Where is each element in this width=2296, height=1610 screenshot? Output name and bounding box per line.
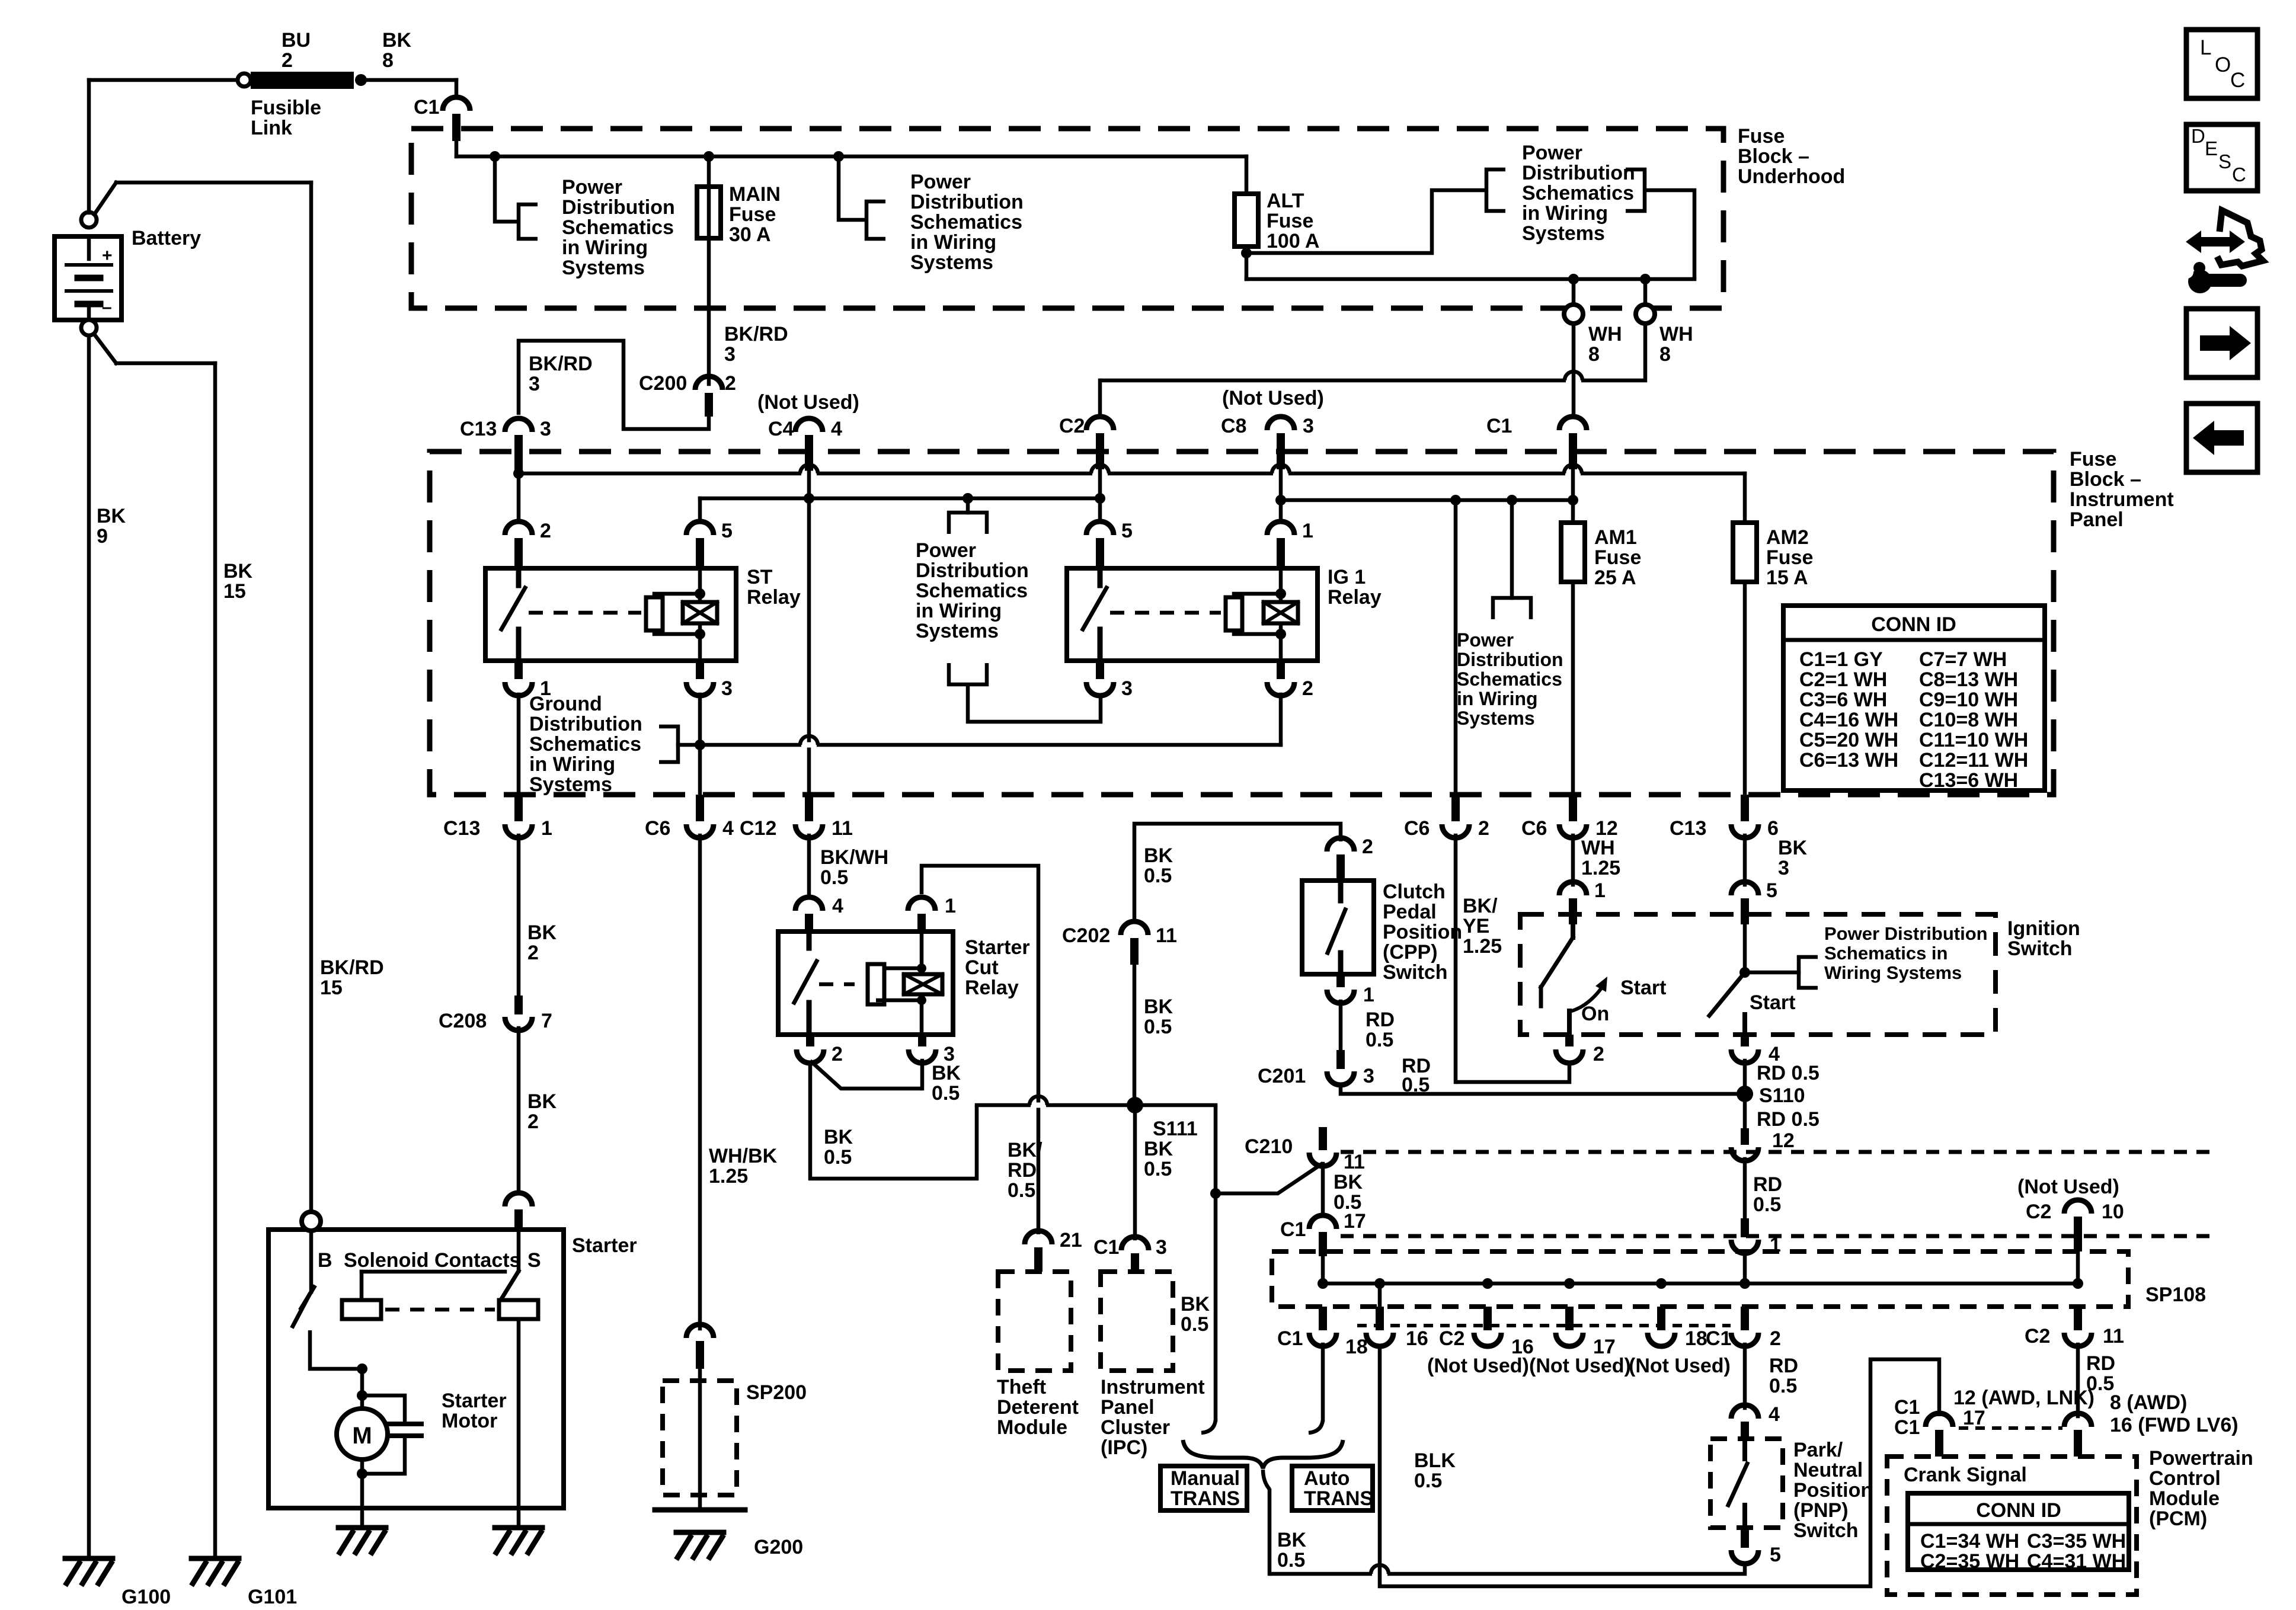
wire S111 horizontal [977,1103,1216,1108]
svg-text:Systems: Systems [910,251,993,274]
battery positive terminal [81,212,97,228]
svg-text:0.5: 0.5 [1008,1179,1035,1202]
wire rail3 [1281,498,1573,502]
PNP switch blade [1742,1439,1747,1459]
dashed line C1 [1341,1234,2217,1238]
svg-text:8: 8 [382,49,394,72]
Fuse Block - Underhood dashed box [411,129,1723,308]
svg-text:0.5: 0.5 [1414,1470,1442,1492]
CPP switch box [1302,881,1374,974]
wire PDS-right to bus2 right end [1645,190,1694,279]
svg-text:in Wiring: in Wiring [529,753,615,776]
svg-text:Distribution: Distribution [562,196,675,219]
instrument panel cluster dashed box [1101,1272,1173,1371]
svg-text:11: 11 [832,817,853,840]
svg-text:TRANS: TRANS [1171,1487,1240,1510]
svg-text:Switch: Switch [1383,961,1448,984]
svg-text:C: C [2230,69,2245,92]
svg-text:Fuse: Fuse [1766,546,1813,569]
connector starter cut pin 3 [909,1049,936,1063]
svg-text:Manual: Manual [1171,1467,1240,1490]
ground G101 [191,1556,239,1561]
svg-text:C2: C2 [2025,1325,2050,1347]
svg-text:Control: Control [2149,1467,2221,1490]
connector IG1 relay pin 5 [1086,521,1114,535]
svg-text:–: – [102,297,112,317]
connector IG1 relay pin 3 [1086,682,1114,696]
svg-text:Cluster: Cluster [1101,1416,1170,1439]
node rail2/C2 [1095,493,1105,504]
svg-text:BK/: BK/ [1008,1139,1043,1161]
svg-text:5: 5 [1770,1544,1781,1566]
wire bus2 [1246,277,1694,281]
svg-text:C3=6 WH: C3=6 WH [1799,689,1887,711]
svg-text:Systems: Systems [529,773,612,796]
node bus1/MAIN fuse [703,151,714,162]
svg-text:25 A: 25 A [1594,566,1636,589]
svg-text:2: 2 [1770,1327,1781,1350]
connector CPP pin 1 [1336,974,1345,987]
wire rail1 BK/RD3 feed [519,472,1745,476]
svg-text:BK: BK [1144,996,1173,1018]
wire rail2 to PDS-mid-IP bracket [966,498,970,513]
svg-text:Starter: Starter [965,936,1030,959]
svg-text:C1: C1 [1277,1327,1303,1350]
svg-text:2: 2 [1302,677,1313,700]
svg-text:16 (FWD LV6): 16 (FWD LV6) [2110,1414,2239,1436]
starter motor [337,1409,388,1459]
svg-text:Schematics: Schematics [562,216,674,239]
terminal starter B [302,1212,321,1231]
svg-text:C7=7 WH: C7=7 WH [1919,648,2007,671]
svg-text:BK/RD: BK/RD [320,956,384,979]
svg-text:C6: C6 [1521,817,1547,840]
svg-text:Power: Power [1522,142,1582,164]
svg-text:BK: BK [1144,844,1173,867]
svg-text:Underhood: Underhood [1738,165,1845,188]
ignition start arrow [1568,985,1604,1012]
wire to PDS-mid bracket [839,156,866,220]
svg-text:Relay: Relay [1328,586,1382,609]
off-page bracket PDS-left [519,204,538,239]
svg-text:Schematics in: Schematics in [1824,943,1948,964]
svg-text:Module: Module [2149,1487,2220,1510]
svg-text:15: 15 [223,580,246,603]
svg-text:Powertrain: Powertrain [2149,1447,2253,1470]
node rail2/PDS-mid-IP [962,493,973,504]
svg-text:17: 17 [1963,1407,1985,1429]
svg-text:Power: Power [562,176,622,199]
svg-text:C1: C1 [1894,1396,1920,1419]
svg-text:Position: Position [1383,921,1462,943]
wire C6-2 feed from rail3 [1454,500,1458,795]
svg-text:0.5: 0.5 [1181,1313,1208,1336]
wire AM2 to C13-6 [1743,582,1747,795]
svg-text:S111: S111 [1153,1118,1198,1140]
wire ST pin1 down to C13-1 [517,694,521,795]
battery [55,236,121,320]
small brace auto trans [1263,1470,1269,1489]
svg-text:RD: RD [1008,1159,1037,1182]
ST relay link dashes [529,611,641,615]
svg-text:C4=31 WH: C4=31 WH [2027,1550,2126,1573]
svg-text:3: 3 [540,418,551,440]
svg-text:Deterent: Deterent [997,1396,1079,1419]
node bus2/WH8-right [1640,274,1651,284]
svg-text:BK: BK [932,1062,961,1084]
connector ST relay pin 1 [505,682,532,696]
node bus2/WH8-left [1568,274,1579,284]
off-page bracket PDS-right-right [1626,169,1645,211]
wire CPP feed [1134,824,1341,919]
node rail3/PDS-right-IP [1507,495,1517,505]
svg-text:11: 11 [2103,1325,2124,1347]
wire rail2 coil feed [700,497,1100,501]
svg-text:C4: C4 [768,418,794,440]
resistor starter cut coil [868,964,884,1004]
svg-text:16: 16 [1406,1327,1428,1350]
svg-text:3: 3 [1778,857,1789,879]
svg-text:Relay: Relay [747,586,801,609]
svg-text:C12: C12 [740,817,776,840]
svg-text:Power: Power [1457,629,1514,651]
svg-text:Crank Signal: Crank Signal [1904,1464,2027,1486]
wire rail4 corner up to IG1 pin2 [1279,694,1283,745]
svg-text:IG 1: IG 1 [1328,566,1366,588]
wire C1-18 to trans brace [1321,1345,1325,1420]
relay ST box [485,568,736,661]
svg-text:C1: C1 [414,96,439,119]
svg-text:C1: C1 [1706,1327,1731,1350]
svg-text:RD 0.5: RD 0.5 [1757,1062,1819,1084]
svg-text:18: 18 [1685,1327,1707,1350]
svg-text:Motor: Motor [442,1410,497,1432]
svg-text:Clutch: Clutch [1383,881,1446,903]
svg-text:Position: Position [1793,1479,1873,1502]
PNP switch dashed box [1710,1439,1783,1528]
svg-text:Ground: Ground [529,693,602,715]
wire starter B inside [309,1231,314,1292]
svg-text:0.5: 0.5 [1753,1193,1781,1216]
svg-text:2: 2 [1478,817,1489,840]
svg-text:C2: C2 [1059,415,1085,437]
svg-text:0.5: 0.5 [1402,1074,1430,1096]
svg-text:RD: RD [1366,1009,1395,1031]
svg-text:1: 1 [1302,520,1313,542]
connector ST relay pin 2 [505,521,532,535]
splice S111 [1127,1097,1143,1113]
wire motor branch [360,1369,364,1409]
icon wrench/diagram [2217,210,2263,266]
svg-text:WH: WH [1659,323,1693,345]
svg-text:BK: BK [382,29,412,52]
connector starter cut pin 4 [795,897,823,911]
svg-text:4: 4 [831,418,842,440]
svg-text:Schematics: Schematics [1522,182,1634,204]
svg-text:3: 3 [721,677,733,700]
svg-text:2: 2 [540,520,551,542]
svg-text:C1: C1 [1486,415,1512,437]
svg-text:10: 10 [2102,1201,2124,1223]
svg-text:Panel: Panel [1101,1396,1155,1419]
connector ignition pin 1 [1559,882,1587,895]
fusible link BU 2 [238,73,251,87]
svg-text:CONN ID: CONN ID [1871,613,1956,636]
wire C6-12 to ignition pin1 [1571,836,1575,885]
powertrain control module dashed box [1887,1457,2137,1595]
node rail3/C1-AM1 [1568,495,1578,505]
svg-text:1.25: 1.25 [1581,857,1620,879]
svg-text:O: O [2215,53,2231,76]
node bus1/PDS-left [490,151,500,162]
connector IG1 relay pin 1 [1267,521,1294,535]
svg-text:C8=13 WH: C8=13 WH [1919,668,2018,691]
solenoid contact left [342,1300,381,1319]
wire SP108 bus [1323,1282,2078,1286]
svg-text:BK: BK [97,505,126,527]
svg-text:(Not Used): (Not Used) [757,391,859,414]
svg-text:WH: WH [1588,323,1622,345]
svg-text:2: 2 [527,942,539,964]
wire blade to motor node [310,1330,362,1369]
connector starter cut pin 1 [908,897,935,911]
svg-text:0.5: 0.5 [1769,1375,1797,1397]
off-page bracket PDS-mid-IP top [949,513,987,534]
svg-text:Distribution: Distribution [916,559,1029,582]
svg-text:Block –: Block – [1738,145,1809,168]
ST relay switch [516,568,522,585]
ignition pin4 contact [1742,1014,1747,1035]
ignition ACC blade [1571,924,1575,937]
IG1 relay link dashes [1110,611,1221,615]
svg-text:C13: C13 [443,817,480,840]
svg-text:C201: C201 [1258,1065,1306,1087]
off-page bracket PDS-mid-underhood [866,201,885,239]
wire bus1 corner to ALT fuse [1245,156,1249,194]
svg-text:BK: BK [1778,837,1808,859]
wire ignition to PDS bracket [1745,971,1799,975]
wire solenoid S to ground [517,1319,521,1508]
fuse AM2 15A [1733,523,1757,582]
svg-text:C12=11 WH: C12=11 WH [1919,749,2028,772]
resistor ST relay coil [646,597,663,630]
node ALT/PDS-right return [1241,248,1252,258]
svg-text:Module: Module [997,1416,1067,1439]
connector ignition pin 5 [1731,882,1758,895]
wire PDS-mid-IP to IG1 pin3 [968,684,1101,722]
svg-text:C13=6 WH: C13=6 WH [1919,769,2018,792]
svg-text:(Not Used): (Not Used) [1222,387,1324,409]
svg-text:BK/WH: BK/WH [820,846,888,869]
connector ignition pin 4 [1741,1035,1749,1046]
wire ST pin3 to C6-4 [698,694,702,795]
connector IG1 relay pin 2 [1267,682,1294,696]
svg-text:G101: G101 [248,1586,297,1608]
svg-text:12 (AWD, LNK): 12 (AWD, LNK) [1953,1387,2094,1409]
solenoid dashed link [385,1308,495,1312]
svg-text:9: 9 [97,525,108,548]
wire rail4 ground net [678,743,1281,747]
wire C1 down to AM1 [1571,469,1575,523]
connector starter cut pin 2 [797,1049,824,1063]
resistor IG1 relay coil [1226,597,1242,630]
svg-text:Schematics: Schematics [916,580,1028,602]
svg-text:in Wiring: in Wiring [916,600,1002,622]
wire starter cut pin2-pin3 join [810,1061,922,1089]
svg-text:3: 3 [724,343,736,366]
theft deterrent module dashed box [998,1272,1071,1371]
ignition start blade right [1743,924,1747,972]
terminal WH8-right [1636,305,1655,324]
svg-text:1: 1 [1594,879,1606,902]
connector C2 pin 18 (Not Used) [1657,1307,1665,1330]
wire C208 to starter S [517,1028,521,1191]
svg-text:C1: C1 [1280,1218,1306,1241]
svg-text:100 A: 100 A [1267,230,1319,252]
svg-text:Battery: Battery [132,227,201,249]
wire C13-3 to ST relay pin2 [517,471,521,518]
wire battery+ up to top rail [87,80,91,213]
svg-text:C11=10 WH: C11=10 WH [1919,729,2028,751]
svg-text:RD 0.5: RD 0.5 [1757,1108,1819,1131]
CPP switch blade [1338,881,1344,901]
svg-text:G200: G200 [754,1536,803,1558]
svg-text:C1=34 WH: C1=34 WH [1920,1530,2019,1553]
svg-text:BK/: BK/ [1463,895,1498,917]
svg-text:C13: C13 [1670,817,1706,840]
wire C13-1 to C208 [517,836,521,996]
svg-text:17: 17 [1344,1210,1366,1233]
svg-text:C8: C8 [1221,415,1246,437]
svg-text:(CPP): (CPP) [1383,941,1438,964]
wire PDS-right-left-bracket return [1246,190,1486,253]
svg-text:4: 4 [832,895,843,917]
ground starter motor [338,1525,386,1531]
wire S111 down to IPC C1-3 [1133,1105,1137,1238]
fuse MAIN 30A [697,187,721,238]
svg-text:C1: C1 [1894,1416,1920,1439]
svg-text:C2=35 WH: C2=35 WH [1920,1550,2019,1573]
svg-text:Distribution: Distribution [529,713,642,735]
svg-text:in Wiring: in Wiring [562,236,648,259]
svg-text:BK: BK [223,560,253,582]
svg-text:C6=13 WH: C6=13 WH [1799,749,1898,772]
label Auto TRANS box [1292,1466,1373,1510]
starter cut switch [807,932,812,948]
svg-text:Fuse: Fuse [1738,125,1785,148]
off-page bracket PDS-mid-IP bottom [949,663,987,684]
svg-text:2: 2 [1362,836,1373,858]
svg-text:C4=16 WH: C4=16 WH [1799,709,1898,731]
svg-text:Auto: Auto [1304,1467,1350,1490]
splice SP108 dashed box [1272,1251,2128,1307]
svg-text:RD: RD [2086,1352,2115,1375]
svg-text:M: M [352,1423,372,1449]
svg-text:Power: Power [910,171,971,193]
connector pin 1 (C1) [1741,1218,1749,1237]
node rail3/C6-2 [1450,495,1461,505]
wire S111 to C210 [1214,1105,1218,1193]
IG1 relay coil branch [1279,568,1283,661]
svg-text:3: 3 [1121,677,1133,700]
svg-text:L: L [2200,36,2211,59]
svg-text:Fusible: Fusible [251,97,321,119]
wire fusible link to C1 [367,78,456,82]
svg-text:Fuse: Fuse [2070,448,2116,470]
svg-text:C2: C2 [2026,1201,2051,1223]
wire C1-17 to SP108 bus [1321,1256,1325,1283]
wire y=613 to BK 15 vertical [116,361,215,366]
svg-text:Switch: Switch [2007,937,2073,960]
svg-text:BLK: BLK [1414,1449,1456,1472]
svg-text:(Not Used): (Not Used) [1427,1355,1529,1377]
svg-text:8: 8 [1588,343,1600,366]
wire WH8-right exits box [1643,279,1648,305]
wire PNP5 to trans brace [1269,1562,1745,1574]
svg-text:C2=1 WH: C2=1 WH [1799,668,1887,691]
wire y=308 to starter B feed [116,181,311,185]
IG1 relay switch [1098,568,1103,585]
svg-text:C6: C6 [1404,817,1430,840]
connector ST relay pin 5 [686,521,714,535]
node rail3/C8 [1275,495,1286,505]
svg-text:2: 2 [832,1043,843,1065]
svg-text:1: 1 [1363,984,1374,1006]
svg-text:Relay: Relay [965,977,1019,999]
svg-text:(Not Used): (Not Used) [2017,1176,2119,1198]
svg-text:15: 15 [320,977,343,999]
svg-text:3: 3 [1156,1236,1167,1259]
svg-text:S110: S110 [1759,1084,1805,1107]
svg-text:in Wiring: in Wiring [910,231,996,254]
svg-text:YE: YE [1463,915,1489,937]
svg-text:Systems: Systems [1522,222,1605,245]
wire C6-4 to SP200 [698,836,702,1329]
connector SP200 inline [686,1324,714,1338]
svg-text:Wiring Systems: Wiring Systems [1824,962,1962,983]
svg-text:C3=35 WH: C3=35 WH [2027,1530,2126,1553]
connector ignition pin 2 [1565,1035,1574,1046]
starter box [268,1230,564,1508]
svg-text:0.5: 0.5 [1144,1016,1172,1038]
svg-text:0.5: 0.5 [820,866,848,889]
svg-text:C2: C2 [1439,1327,1464,1350]
svg-text:WH/BK: WH/BK [709,1145,778,1167]
wire into SP108 [1743,1251,1747,1283]
svg-text:0.5: 0.5 [1144,1158,1172,1180]
connector ST relay pin 3 [686,682,714,696]
svg-text:11: 11 [1156,924,1177,947]
svg-text:On: On [1581,1003,1609,1025]
coil symbol IG1 relay [1264,602,1298,623]
wire C210 to C1-17 [1321,1164,1325,1216]
svg-text:3: 3 [1303,415,1314,437]
svg-text:BK/RD: BK/RD [529,353,593,375]
svg-text:Theft: Theft [997,1376,1046,1398]
wire MAIN fuse branch [707,156,711,384]
wire BK 15 vertical to G101 [213,363,218,1558]
svg-text:AM2: AM2 [1766,526,1809,549]
svg-text:+: + [102,246,113,265]
svg-text:6: 6 [1767,817,1779,840]
wire battery- diagonal to BK 15 [94,334,116,363]
off-page bracket PDS-right-left [1486,169,1505,211]
relay IG1 box [1067,568,1318,661]
svg-text:TRANS: TRANS [1304,1487,1373,1510]
Fuse Block - Instrument Panel dashed box [430,452,2054,795]
wire top rail to fusible link [89,78,244,82]
battery negative terminal [81,320,97,335]
